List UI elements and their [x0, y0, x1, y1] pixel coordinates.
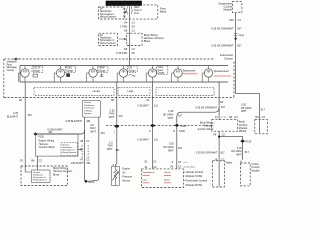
- sub box logic: [118, 88, 150, 96]
- pin 9 C4: [172, 161, 188, 164]
- svg-text:Trans: Trans: [157, 66, 164, 69]
- svg-text:• Powertrain Control: • Powertrain Control: [184, 179, 208, 183]
- pin 84 C2 BCM: [255, 115, 265, 119]
- label 0.35 DK GRN/WHT 817 radio: [196, 152, 225, 155]
- wire branch 0.5 BLK/WHT to P100 box: [36, 130, 85, 134]
- label TEMP gauge: [98, 66, 108, 77]
- label 0.35 TAN/WHT 331: [109, 109, 124, 118]
- svg-text:WHT: WHT: [109, 116, 115, 119]
- svg-text:817: 817: [178, 115, 183, 118]
- pin F6 C2: [80, 159, 90, 162]
- svg-text:817: 817: [237, 26, 242, 30]
- label 0.35 DK GRN/WHT 817: [211, 44, 242, 48]
- svg-text:Junction Block: Junction Block: [39, 146, 56, 149]
- label 0.35 PNK 39: [116, 51, 135, 55]
- svg-text:Center: Center: [7, 69, 15, 72]
- wire ground branch left from box: [85, 117, 86, 181]
- splice node S339: [235, 38, 237, 40]
- svg-text:1 PNK: 1 PNK: [120, 24, 128, 28]
- label 0.35 DK GRN WHT stack cruise: [231, 147, 249, 157]
- label Body Wiring Harness Junction Block: [53, 167, 73, 176]
- pin D C100: [173, 130, 185, 133]
- engine oil pressure sensor: [112, 166, 120, 185]
- sub box lamps: [34, 88, 114, 96]
- svg-text:HOT AT ALL TIMES: HOT AT ALL TIMES: [108, 2, 140, 6]
- label 0.35 BLK/WHT 451: [65, 120, 91, 123]
- label 0.35 DK GRN WHT stack 2: [163, 143, 183, 153]
- label trans temp gauge: [157, 66, 168, 75]
- svg-text:Gauge: Gauge: [66, 70, 74, 72]
- svg-text:Ground: Ground: [84, 102, 91, 104]
- reference box I/P distribution: [99, 7, 127, 19]
- svg-text:Gauge: Gauge: [33, 70, 41, 72]
- label FUEL gauge: [65, 66, 75, 77]
- ground G103: [85, 180, 95, 184]
- svg-text:121: 121: [154, 105, 159, 108]
- gauge temp: [87, 66, 98, 83]
- wire B4 from P100 down: [37, 156, 39, 170]
- svg-text:B4: B4: [255, 115, 259, 119]
- svg-text:P100: P100: [181, 125, 187, 128]
- svg-text:Oil: Oil: [122, 171, 126, 174]
- svg-text:Module: Module: [252, 170, 261, 173]
- fuse block dashed box: [125, 5, 158, 19]
- label 0.8 BLK/WHT 451 stack: [90, 124, 105, 135]
- svg-text:0.35 DK GRN/WHT: 0.35 DK GRN/WHT: [195, 107, 217, 110]
- svg-text:C2: C2: [132, 47, 136, 51]
- svg-text:VOLTS: VOLTS: [33, 68, 41, 70]
- junction pass-through dashes: [82, 145, 88, 158]
- label 0.35 WHT 121: [138, 138, 159, 141]
- svg-text:Block: Block: [53, 173, 60, 176]
- svg-text:D6: D6: [124, 47, 128, 51]
- svg-text:D: D: [173, 130, 175, 133]
- svg-text:0.35 DK GRN/WHT: 0.35 DK GRN/WHT: [211, 44, 234, 48]
- connector P100 marker on 817 wire: [174, 124, 187, 128]
- wire 817 from cluster A9: [218, 98, 220, 120]
- svg-text:C4: C4: [238, 18, 242, 22]
- svg-text:817: 817: [178, 147, 183, 150]
- svg-text:• Vehicle Control: • Vehicle Control: [184, 170, 203, 174]
- gauge speedometer: [202, 66, 213, 83]
- svg-text:Gauge: Gauge: [157, 72, 165, 74]
- gauge tachometer: [172, 66, 183, 83]
- bus left tie: [19, 66, 21, 83]
- svg-text:WHT: WHT: [107, 148, 113, 151]
- svg-text:A8: A8: [19, 98, 23, 102]
- label 0.35 DK GRN/WHT 817: [195, 106, 225, 110]
- label message center: [7, 58, 19, 72]
- svg-text:Module (VCM): Module (VCM): [184, 174, 202, 178]
- svg-text:Schematics in: Schematics in: [100, 13, 115, 16]
- label VCM PCM: [184, 170, 208, 187]
- wire second ground branch: [87, 117, 99, 181]
- svg-text:FUEL: FUEL: [66, 68, 73, 70]
- svg-text:0.35 WHT: 0.35 WHT: [138, 138, 150, 141]
- label 1 BLK/WHT 451: [71, 162, 92, 165]
- gauge trans temp: [146, 66, 157, 83]
- svg-text:Distribution: Distribution: [62, 146, 72, 149]
- svg-text:in Wiring: in Wiring: [84, 110, 92, 112]
- bus upper: [20, 65, 228, 67]
- pin A4 C1: [124, 21, 135, 25]
- svg-text:451: 451: [28, 114, 33, 117]
- pin B4 C2: [31, 159, 42, 162]
- label Instrument Cluster: [220, 53, 233, 60]
- svg-text:Schematics in: Schematics in: [100, 39, 115, 42]
- wire PNK fuse feed: [128, 5, 130, 66]
- svg-text:Gauge: Gauge: [129, 70, 137, 72]
- svg-text:0.35 WHT: 0.35 WHT: [138, 105, 150, 108]
- svg-text:817: 817: [220, 152, 225, 155]
- svg-text:C1: C1: [132, 21, 136, 25]
- svg-text:Tachometer: Tachometer: [182, 70, 195, 73]
- svg-text:Block: Block: [144, 39, 151, 43]
- wire oil sender TAN 331: [115, 98, 116, 167]
- body control module BCM: [239, 120, 267, 134]
- svg-text:0.35 DK GRN/WHT: 0.35 DK GRN/WHT: [211, 26, 234, 30]
- label 0.35 BLK/WHT 451: [7, 112, 33, 118]
- svg-text:(BCM): (BCM): [239, 129, 247, 133]
- suspension control module U1: [218, 2, 241, 13]
- svg-text:Module: Module: [223, 8, 232, 12]
- splice node: [218, 136, 220, 138]
- label Body Wiring Harness Junction Block: [144, 33, 165, 43]
- svg-text:Cluster: Cluster: [224, 57, 233, 61]
- svg-text:0.35 DK GRN/WHT: 0.35 DK GRN/WHT: [196, 152, 218, 155]
- bus lower: [20, 81, 228, 83]
- label 0.35 DK GRN/WHT 817 vertical stack right: [241, 104, 266, 114]
- svg-text:Block: Block: [160, 9, 167, 13]
- VCM PCM dashed box: [141, 169, 183, 188]
- splice oval on oil wire: [115, 125, 119, 128]
- label 0.35 WHT 121: [138, 105, 159, 108]
- connector P100 marker: [33, 132, 44, 138]
- gauge voltmeter: [19, 66, 30, 83]
- label 0.35 DK GRN/WHT 817: [211, 26, 242, 30]
- svg-text:P100: P100: [38, 135, 44, 138]
- gauge oil: [117, 66, 128, 83]
- wire speedo WHT 121: [152, 98, 154, 169]
- label tachometer: [182, 70, 197, 74]
- pin 13 D6 C2 row: [215, 116, 238, 119]
- reference box distribution 2: [99, 33, 126, 45]
- svg-text:D6: D6: [124, 28, 128, 32]
- ground distribution reference box: [83, 100, 101, 117]
- svg-text:Speedometer: Speedometer: [143, 171, 155, 174]
- svg-text:WHT: WHT: [90, 130, 96, 133]
- svg-text:Distribution: Distribution: [33, 173, 43, 176]
- svg-text:Input: Input: [143, 178, 148, 181]
- gauge fuel: [54, 66, 64, 83]
- svg-text:P105: P105: [245, 141, 251, 144]
- svg-text:Gauge: Gauge: [98, 70, 106, 72]
- junction block dashed box top: [127, 33, 143, 45]
- pin 10 C2: [144, 166, 157, 169]
- label Engine Oil Pressure Sensor: [122, 167, 133, 182]
- svg-text:TEMP: TEMP: [98, 68, 105, 70]
- svg-text:(+/-): (+/-): [184, 162, 188, 164]
- pin A8 C1: [80, 140, 90, 143]
- label Cruise Control Module: [252, 163, 261, 173]
- svg-text:A10: A10: [229, 18, 234, 22]
- cruise control module dashed box: [241, 163, 251, 186]
- fuse F6 10A: [127, 6, 143, 15]
- svg-text:Systems: Systems: [84, 112, 92, 115]
- svg-text:451: 451: [86, 162, 91, 165]
- wire 817 branch to VCM: [177, 108, 219, 169]
- svg-text:C2: C2: [262, 115, 266, 119]
- svg-text:Schematics in: Schematics in: [33, 176, 45, 179]
- wire into BCM: [259, 120, 261, 133]
- VCM internal rows col1: [143, 171, 155, 183]
- svg-text:Engine: Engine: [122, 167, 130, 170]
- label speedometer: [214, 70, 231, 76]
- body junction block right dashed box: [212, 120, 238, 132]
- sub box right: [156, 88, 214, 96]
- svg-text:Lamps: Lamps: [93, 90, 101, 93]
- wire DK GRN/WHT 817 from suspension: [236, 13, 260, 120]
- svg-text:Wiring Systems: Wiring Systems: [62, 151, 76, 154]
- svg-text:Distribution: Distribution: [100, 10, 112, 13]
- engine wiring harness junction block P100: [35, 134, 78, 156]
- svg-text:1 BLK/WHT: 1 BLK/WHT: [71, 162, 85, 165]
- wire A8 BLK/WHT 451: [24, 98, 26, 173]
- svg-text:Schematics: Schematics: [84, 107, 94, 110]
- svg-text:C1: C1: [132, 28, 136, 32]
- svg-text:Sensor: Sensor: [122, 179, 130, 182]
- pin F9 C2: [213, 134, 225, 137]
- svg-text:Speedometer: Speedometer: [214, 70, 229, 73]
- label Body Wiring Harness Junction Block right: [197, 122, 214, 131]
- svg-text:BLK/WHT: BLK/WHT: [7, 115, 19, 118]
- wire 817 down to radio: [218, 131, 220, 186]
- VCM internal rows col2: [164, 172, 171, 183]
- label 0.5 BLK/WHT 451: [47, 128, 63, 134]
- svg-text:WHT: WHT: [168, 149, 174, 152]
- svg-text:817: 817: [221, 106, 226, 109]
- svg-text:WHT: WHT: [241, 110, 247, 113]
- svg-text:Pressure: Pressure: [122, 175, 133, 178]
- svg-text:10 A: 10 A: [134, 12, 139, 15]
- splice oval on speedo wire: [151, 124, 155, 127]
- connector C100 line: [106, 125, 212, 127]
- pin D6 C1: [124, 28, 135, 32]
- svg-text:121: 121: [154, 138, 159, 141]
- svg-text:Gray: Gray: [239, 34, 245, 37]
- label 1 PNK 39: [120, 24, 135, 28]
- svg-text:A2: A2: [146, 98, 150, 102]
- svg-text:0.35 BLK/WHT: 0.35 BLK/WHT: [65, 120, 82, 123]
- pin 80 C2: [170, 165, 195, 168]
- pin 20 C2: [144, 160, 157, 163]
- connector P105 marker: [240, 140, 252, 144]
- label 0.35 DK GRN WHT stack: [163, 110, 183, 120]
- svg-text:Speed: Speed: [164, 179, 170, 181]
- svg-text:817: 817: [245, 151, 250, 154]
- svg-text:Distribution: Distribution: [100, 37, 112, 40]
- svg-text:Wiring Systems: Wiring Systems: [100, 42, 117, 45]
- radio dashed box: [212, 161, 224, 187]
- cluster output wires: [24, 82, 26, 98]
- svg-text:Module (PCM): Module (PCM): [184, 183, 202, 187]
- svg-text:(on one bus): (on one bus): [184, 166, 196, 168]
- body junction block bottom dashed box: [21, 166, 68, 186]
- svg-text:Junction Block: Junction Block: [197, 128, 214, 131]
- connector C210 Gray: [234, 34, 245, 38]
- label VOLTS gauge: [32, 66, 43, 77]
- svg-text:G103: G103: [88, 181, 95, 184]
- label Fuse Block: [160, 6, 167, 13]
- svg-text:817: 817: [237, 44, 242, 48]
- svg-text:Logic: Logic: [128, 90, 135, 93]
- svg-text:A9: A9: [220, 100, 224, 104]
- pin 14 C2: [214, 158, 225, 161]
- reference box ground distribution inner: [61, 143, 82, 156]
- svg-text:WHT: WHT: [168, 117, 174, 120]
- pin D6 C2: [124, 47, 135, 51]
- svg-text:Wiring Systems: Wiring Systems: [100, 15, 117, 18]
- wire branch to P105 cruise: [219, 137, 243, 160]
- power label HOT AT ALL TIMES: [106, 1, 142, 6]
- svg-text:451: 451: [101, 132, 106, 135]
- pin A10 C4: [229, 18, 241, 22]
- svg-text:451: 451: [86, 120, 91, 123]
- svg-text:A4: A4: [124, 21, 128, 25]
- svg-text:B1: B1: [111, 98, 115, 102]
- svg-text:C100: C100: [179, 130, 186, 133]
- svg-text:331: 331: [119, 115, 124, 118]
- svg-text:0.35 PNK: 0.35 PNK: [116, 51, 127, 55]
- svg-text:Schematics in: Schematics in: [62, 149, 74, 152]
- svg-text:817: 817: [261, 108, 266, 111]
- instrument cluster dashed box: [4, 59, 234, 98]
- label 1.0 TAN WHT 331: [107, 141, 120, 152]
- svg-text:331: 331: [115, 149, 120, 152]
- svg-text:Vehicle: Vehicle: [164, 172, 171, 174]
- label OIL gauge: [128, 66, 138, 76]
- svg-text:Radio: Radio: [226, 161, 233, 164]
- svg-text:WHT: WHT: [236, 153, 242, 156]
- svg-text:Wiring Systems: Wiring Systems: [33, 179, 47, 182]
- svg-text:Distribution: Distribution: [84, 104, 94, 107]
